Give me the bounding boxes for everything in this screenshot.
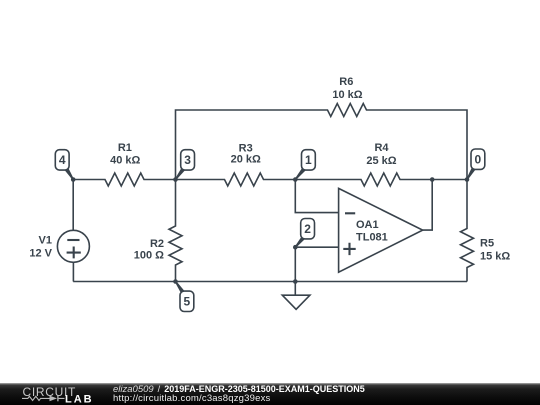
svg-text:2: 2 xyxy=(304,222,311,236)
svg-text:R5: R5 xyxy=(480,237,494,249)
svg-text:100 Ω: 100 Ω xyxy=(134,250,164,262)
svg-text:12 V: 12 V xyxy=(29,248,52,260)
svg-text:R2: R2 xyxy=(150,238,164,250)
svg-text:40 kΩ: 40 kΩ xyxy=(110,155,140,167)
svg-text:25 kΩ: 25 kΩ xyxy=(366,155,396,167)
svg-text:20 kΩ: 20 kΩ xyxy=(231,153,261,165)
svg-text:OA1: OA1 xyxy=(356,219,379,231)
svg-text:R1: R1 xyxy=(118,142,132,154)
svg-text:V1: V1 xyxy=(39,235,52,247)
svg-text:15 kΩ: 15 kΩ xyxy=(480,251,510,263)
svg-text:R4: R4 xyxy=(374,142,389,154)
svg-text:R6: R6 xyxy=(339,76,353,88)
svg-text:LAB: LAB xyxy=(65,394,94,405)
svg-text:4: 4 xyxy=(59,153,66,167)
svg-text:10 kΩ: 10 kΩ xyxy=(332,89,362,101)
svg-text:0: 0 xyxy=(475,153,482,167)
svg-text:1: 1 xyxy=(305,153,312,167)
svg-text:TL081: TL081 xyxy=(356,232,388,244)
svg-text:5: 5 xyxy=(184,295,191,309)
svg-text:3: 3 xyxy=(184,153,191,167)
